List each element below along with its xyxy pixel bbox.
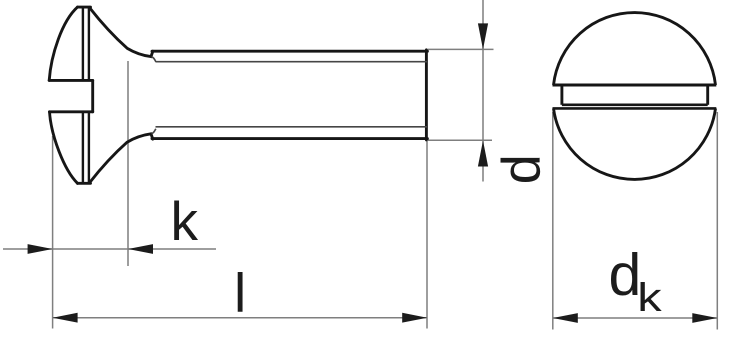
svg-text:d: d bbox=[492, 154, 552, 184]
svg-text:k: k bbox=[171, 190, 199, 252]
svg-text:k: k bbox=[637, 276, 662, 320]
svg-text:l: l bbox=[234, 262, 246, 324]
